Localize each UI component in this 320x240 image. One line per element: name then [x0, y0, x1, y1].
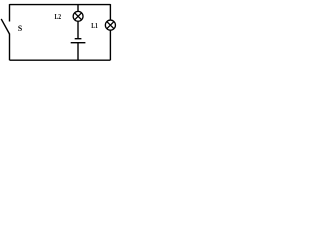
svg-text:L1: L1: [91, 23, 98, 31]
svg-text:L2: L2: [55, 13, 62, 21]
svg-text:S: S: [18, 24, 23, 33]
